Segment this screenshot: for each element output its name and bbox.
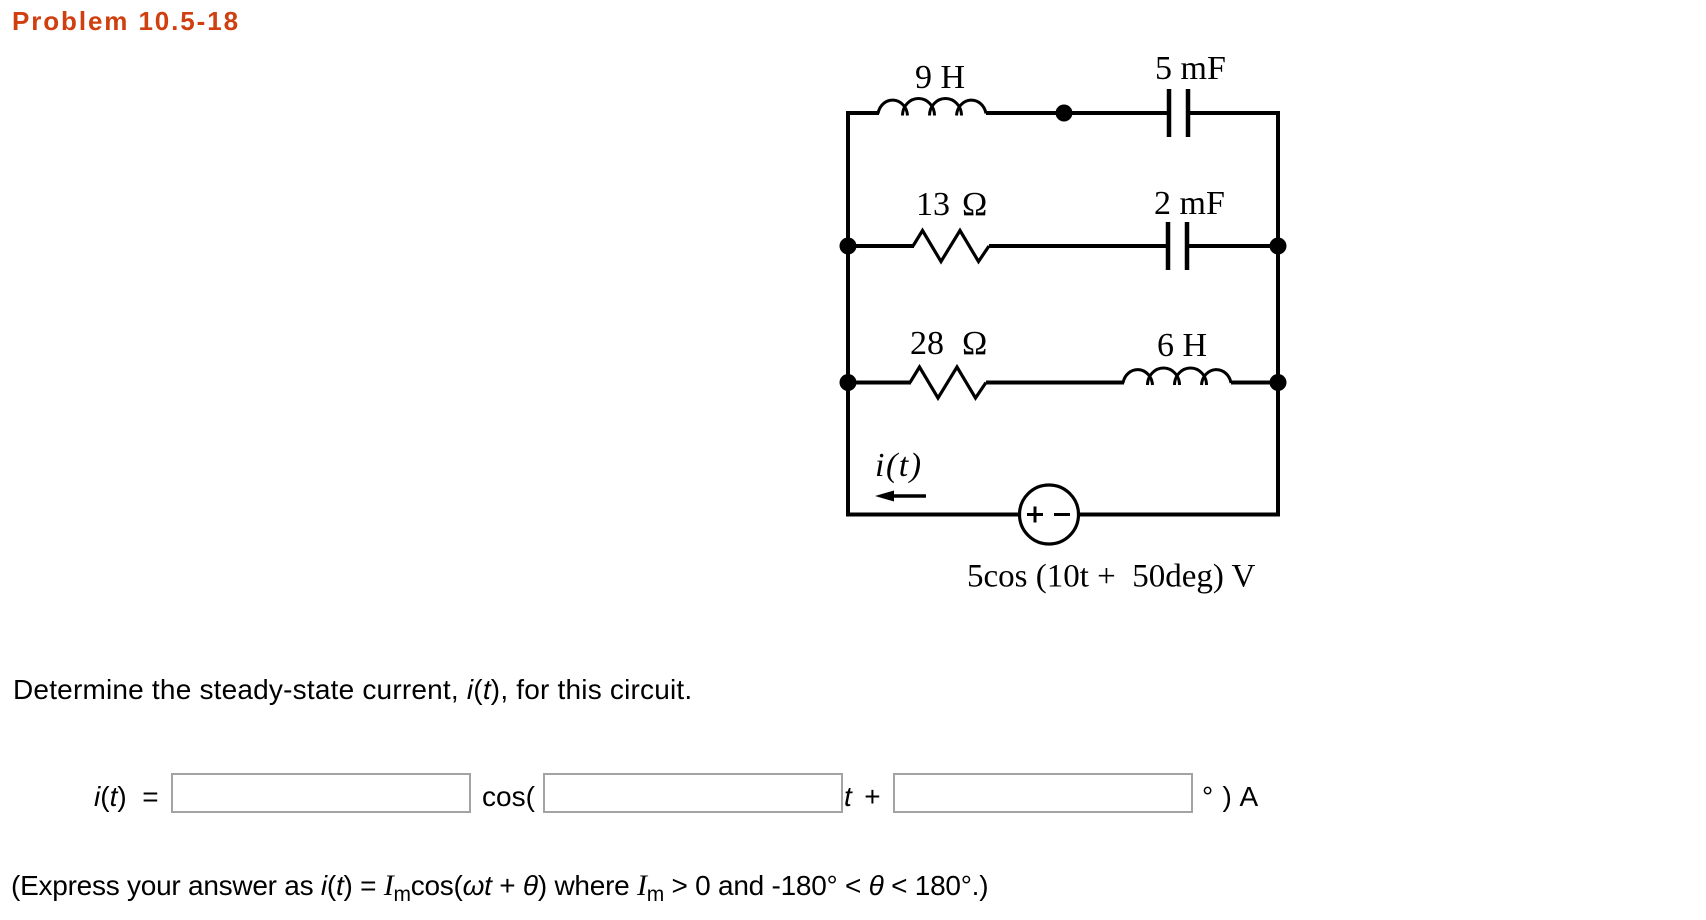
wire: third branch middle segment <box>986 381 1124 385</box>
circuit schematic SVG <box>0 0 1706 660</box>
node dot E (third-right) <box>1270 374 1287 391</box>
current arrow pointing left <box>875 491 926 502</box>
answer row: deg ) A <box>1202 781 1258 813</box>
wire: top branch left segment <box>846 111 879 115</box>
voltage source minus sign <box>1054 513 1070 516</box>
label source voltage 5cos(10t+50deg) V <box>967 559 1256 595</box>
answer input box 2 <box>543 773 843 813</box>
node dot D (third-left) <box>840 374 857 391</box>
label 28 ohm <box>910 325 987 362</box>
svg-text:5 mF: 5 mF <box>1155 50 1226 87</box>
node dot B (middle-left) <box>840 238 857 255</box>
answer row: cos( <box>482 781 535 813</box>
voltage source plus sign <box>1027 507 1043 523</box>
svg-text:13: 13 <box>916 186 950 223</box>
wire: top branch right segment <box>1190 111 1280 115</box>
svg-text:Ω: Ω <box>962 325 987 362</box>
label 9 H <box>915 59 965 96</box>
answer input box 3 <box>893 773 1193 813</box>
wire: right rail <box>1276 113 1280 515</box>
label 5 mF <box>1155 50 1226 87</box>
resistor R2 28 ohm <box>910 367 986 398</box>
voltage source VS circle <box>1020 485 1079 544</box>
node dot C (middle-right) <box>1270 238 1287 255</box>
wire: middle branch left segment <box>848 244 914 248</box>
svg-text:i(t): i(t) <box>875 447 923 484</box>
svg-text:2 mF: 2 mF <box>1154 185 1225 222</box>
label 6 H <box>1157 327 1207 364</box>
answer input box 1 <box>171 773 471 813</box>
wire: bottom right segment <box>1078 513 1280 517</box>
svg-text:9 H: 9 H <box>915 59 965 96</box>
capacitor C1 5 mF <box>1169 89 1188 137</box>
question text <box>13 674 692 706</box>
inductor L1 9 H <box>878 99 986 116</box>
answer row: t + <box>844 781 881 813</box>
wire: bottom left segment <box>846 513 1020 517</box>
svg-text:6 H: 6 H <box>1157 327 1207 364</box>
express instruction line <box>11 869 988 903</box>
page title <box>12 6 240 37</box>
label 13 ohm <box>916 186 987 223</box>
svg-text:Ω: Ω <box>962 186 987 223</box>
wire: third branch left segment <box>848 381 911 385</box>
inductor L2 6 H <box>1123 368 1231 385</box>
wire: third branch right segment <box>1231 381 1278 385</box>
svg-text:28: 28 <box>910 325 944 362</box>
wire: left rail <box>846 113 850 515</box>
wire: top branch middle segment <box>986 111 1167 115</box>
wire: middle branch middle segment <box>989 244 1167 248</box>
node dot A (top) <box>1056 105 1073 122</box>
wire: middle branch right segment <box>1189 244 1278 248</box>
answer row: i(t) = <box>94 781 159 813</box>
svg-text:5cos (10t + 50deg) V: 5cos (10t + 50deg) V <box>967 559 1256 595</box>
resistor R1 13 ohm <box>913 231 989 262</box>
capacitor C2 2 mF <box>1168 222 1187 270</box>
label 2 mF <box>1154 185 1225 222</box>
label i(t) current <box>875 447 923 484</box>
